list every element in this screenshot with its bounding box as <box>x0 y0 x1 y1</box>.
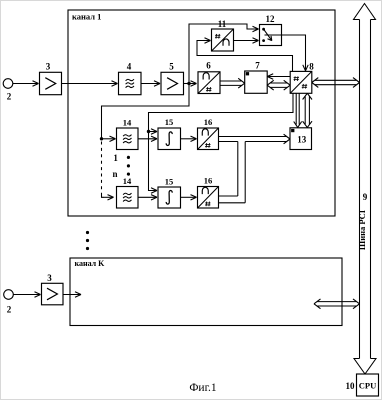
svg-text:n: n <box>112 169 117 179</box>
svg-text:2: 2 <box>7 92 12 102</box>
svg-text:канал K: канал K <box>75 259 106 268</box>
svg-text:12: 12 <box>266 14 276 24</box>
svg-text:15: 15 <box>165 177 174 187</box>
svg-text:Шина PCI: Шина PCI <box>357 209 367 250</box>
svg-text:4: 4 <box>127 62 132 72</box>
svg-text:Фиг.1: Фиг.1 <box>189 382 217 394</box>
svg-text:9: 9 <box>363 192 368 202</box>
svg-text:канал 1: канал 1 <box>72 12 101 22</box>
svg-text:6: 6 <box>206 61 211 71</box>
svg-text:13: 13 <box>297 134 307 144</box>
svg-text:1: 1 <box>113 153 118 163</box>
svg-text:14: 14 <box>123 118 132 128</box>
svg-text:15: 15 <box>165 117 174 127</box>
svg-text:5: 5 <box>169 62 174 72</box>
svg-text:2: 2 <box>7 305 12 315</box>
svg-text:10: 10 <box>346 381 356 391</box>
svg-text:3: 3 <box>47 273 52 283</box>
svg-text:3: 3 <box>46 62 51 72</box>
svg-text:CPU: CPU <box>359 380 376 390</box>
svg-text:16: 16 <box>204 117 213 127</box>
svg-text:7: 7 <box>255 61 260 71</box>
svg-text:8: 8 <box>309 61 314 71</box>
svg-text:16: 16 <box>204 176 213 186</box>
svg-text:14: 14 <box>123 176 132 186</box>
